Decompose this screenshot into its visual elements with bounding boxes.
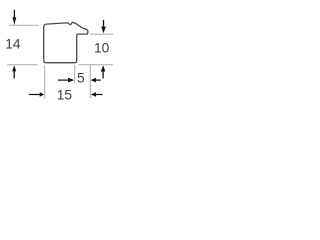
svg-text:5: 5	[77, 70, 85, 85]
svg-text:14: 14	[5, 37, 21, 52]
svg-text:10: 10	[94, 40, 110, 55]
svg-text:15: 15	[57, 87, 73, 102]
